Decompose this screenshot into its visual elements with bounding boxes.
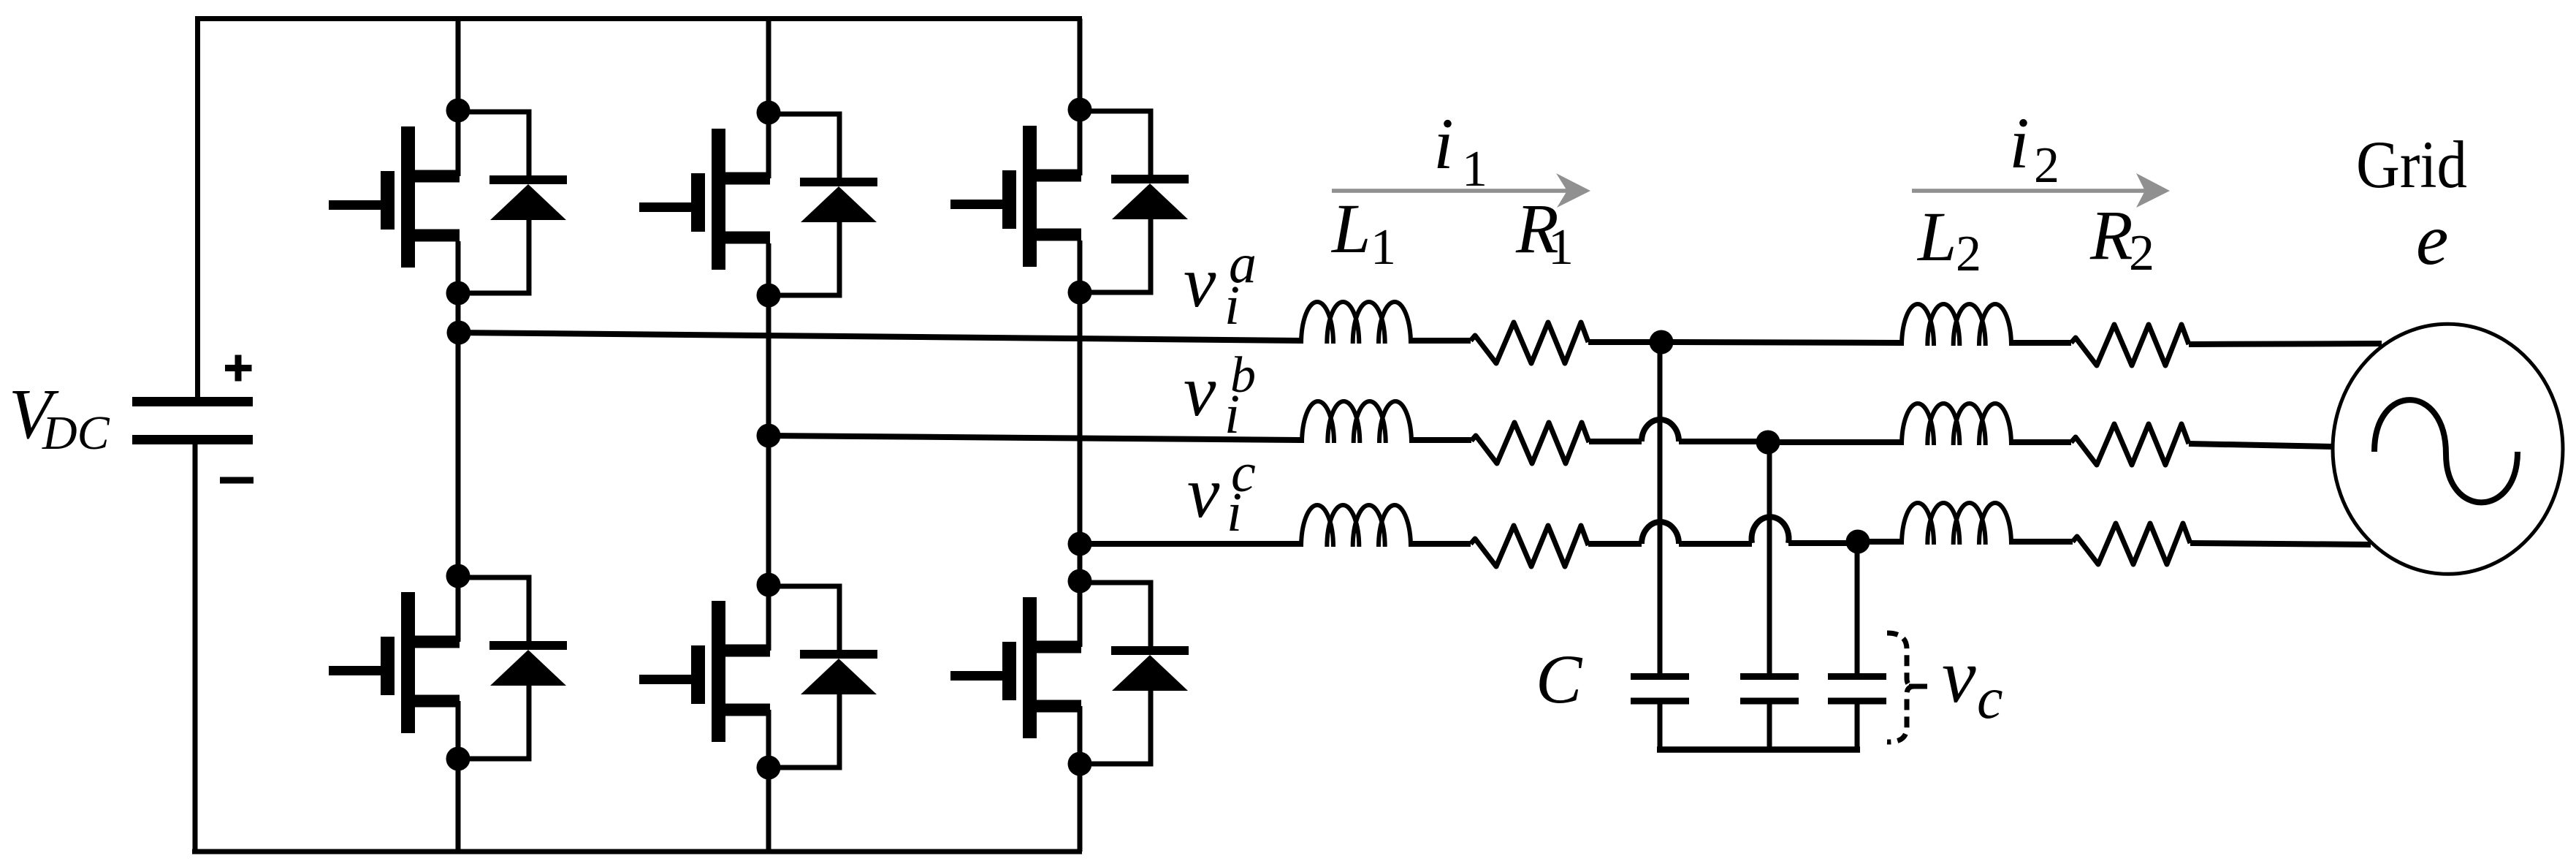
wire R2c to grid: [2190, 543, 2371, 545]
svg-text:2: 2: [2034, 137, 2059, 194]
wire Cb to bus: [1767, 701, 1772, 749]
transistor Q5: [950, 126, 1081, 267]
diode D5: [1080, 111, 1189, 292]
label C: [1536, 640, 1583, 718]
label L2: [1916, 197, 1981, 282]
wire L2a to R2a: [2011, 340, 2071, 346]
wire between hops: [1679, 541, 1752, 547]
wire VDC negative lead: [193, 439, 198, 852]
resistor R2b: [2071, 424, 2189, 465]
svg-text:v: v: [1942, 633, 1976, 719]
wire node a to L2a: [1661, 342, 1902, 343]
svg-text:v: v: [1184, 350, 1216, 431]
wire Ca to bus: [1658, 701, 1663, 749]
arrow i2: [1912, 173, 2170, 208]
wire leg c upper: [1078, 19, 1083, 852]
DC source VDC plates: [132, 402, 253, 440]
wire node c to L2c: [1858, 539, 1902, 545]
resistor R1c: [1471, 526, 1588, 566]
svg-text:c: c: [1977, 667, 2003, 731]
wire Cc to bus: [1855, 701, 1860, 749]
wire VDC positive lead: [195, 19, 200, 402]
arrow i1: [1332, 173, 1590, 208]
label VDC: [9, 375, 110, 460]
wire bottom DC- rail: [192, 849, 1082, 854]
svg-text:DC: DC: [42, 406, 110, 460]
svg-text:Grid: Grid: [2356, 127, 2467, 202]
label vic phase c: [1187, 442, 1256, 543]
transistor Q1: [329, 126, 460, 268]
node phase a tap: [447, 321, 471, 345]
svg-text:1: 1: [1371, 219, 1396, 276]
node Q6 source: [1068, 752, 1092, 776]
wire leg b upper: [766, 19, 771, 852]
wire R1c to hop1: [1588, 541, 1642, 547]
label e: [2416, 199, 2448, 280]
label R2: [2089, 196, 2154, 281]
wire hop c over a branch: [1642, 522, 1679, 544]
wire phase b to L1b: [769, 436, 1302, 440]
transistor Q6: [950, 597, 1081, 738]
wire R1a to node a: [1588, 339, 1661, 345]
label i2: [2009, 102, 2059, 194]
resistor R1b: [1471, 422, 1589, 463]
svg-text:v: v: [1184, 241, 1216, 322]
capacitor Cc: [1828, 677, 1886, 702]
node Q2 source: [446, 747, 470, 771]
wire top DC+ rail: [195, 16, 1082, 21]
inductor L1b: [1302, 401, 1411, 443]
inductor L2b: [1902, 403, 2011, 445]
wire capacitor bus: [1657, 746, 1860, 753]
node Q5 drain: [1068, 98, 1092, 122]
wire L1c to R1c: [1411, 541, 1471, 547]
node Q1 source: [446, 281, 470, 306]
node c: [1846, 530, 1870, 554]
diode D1: [458, 112, 567, 293]
inductor L1a: [1301, 302, 1411, 344]
capacitor Cb: [1740, 677, 1799, 702]
wire L1a to R1a: [1411, 338, 1471, 344]
inductor L1c: [1301, 505, 1411, 547]
svg-text:R: R: [2089, 196, 2133, 274]
node phase b tap: [757, 424, 781, 448]
label L1: [1330, 189, 1396, 276]
grid source circle: [2333, 324, 2563, 574]
svg-text:i: i: [1227, 482, 1242, 543]
svg-text:i: i: [1433, 103, 1454, 184]
node Q6 drain: [1068, 569, 1092, 594]
label i1: [1433, 103, 1487, 197]
node a: [1650, 330, 1674, 355]
plus sign: [225, 355, 252, 382]
wire hop c over b branch: [1752, 517, 1789, 543]
node b: [1756, 431, 1780, 455]
transistor Q3: [639, 129, 770, 270]
label vib phase b: [1184, 347, 1256, 445]
wire node c down to Cc: [1855, 542, 1860, 674]
label R1: [1515, 189, 1574, 276]
wire R2a to grid: [2189, 344, 2382, 344]
wire phase c to L1c: [1080, 541, 1301, 547]
svg-text:2: 2: [1956, 226, 1981, 282]
node Q5 source: [1068, 281, 1092, 305]
svg-text:1: 1: [1462, 141, 1487, 197]
node Q2 drain: [446, 564, 470, 588]
wire L2c to R2c: [2011, 539, 2073, 545]
svg-text:e: e: [2416, 199, 2448, 280]
diode D2: [458, 577, 567, 759]
brace vc dashed: [1887, 633, 1927, 742]
wire R2b to grid: [2189, 444, 2332, 447]
node phase c tap: [1068, 532, 1092, 556]
label via phase a: [1184, 233, 1257, 336]
svg-text:i: i: [2009, 102, 2030, 183]
svg-text:L: L: [1916, 197, 1956, 276]
resistor R2c: [2073, 523, 2190, 564]
resistor R2a: [2071, 325, 2189, 365]
node Q1 drain: [446, 99, 470, 123]
label vc: [1942, 633, 2003, 731]
wire L2b to R2b: [2011, 439, 2071, 445]
minus sign: [220, 477, 254, 484]
svg-text:C: C: [1536, 640, 1583, 718]
svg-text:v: v: [1187, 452, 1220, 533]
wire hop to node b: [1679, 439, 1768, 444]
node Q3 source: [757, 284, 781, 308]
wire phase a to L1a: [458, 333, 1301, 341]
svg-text:L: L: [1330, 189, 1371, 268]
diode D3: [769, 114, 877, 295]
inductor L2a: [1902, 304, 2011, 346]
wire node b to L2b: [1768, 439, 1902, 445]
wire node b down to Cb: [1767, 442, 1772, 674]
wire hop to node c: [1788, 540, 1858, 546]
node Q4 source: [757, 756, 781, 780]
wire leg a upper: [456, 19, 461, 852]
capacitor Ca: [1631, 677, 1689, 702]
inductor L2c: [1902, 503, 2011, 545]
transistor Q2: [329, 592, 460, 733]
label Grid: [2356, 127, 2467, 202]
svg-text:i: i: [1224, 275, 1240, 336]
wire hop b over a branch: [1642, 420, 1679, 442]
wire R1b to hop: [1589, 439, 1642, 444]
diode D6: [1080, 583, 1189, 764]
resistor R1a: [1471, 322, 1588, 363]
node Q4 drain: [757, 573, 781, 597]
svg-text:2: 2: [2129, 225, 2154, 281]
transistor Q4: [639, 601, 770, 742]
wire node a down to Ca: [1658, 342, 1663, 674]
node Q3 drain: [757, 101, 781, 125]
wire L1b to R1b: [1411, 437, 1471, 443]
diode D4: [769, 586, 877, 768]
svg-text:i: i: [1224, 384, 1240, 445]
grid sine wave: [2374, 400, 2518, 502]
svg-text:1: 1: [1548, 219, 1574, 276]
